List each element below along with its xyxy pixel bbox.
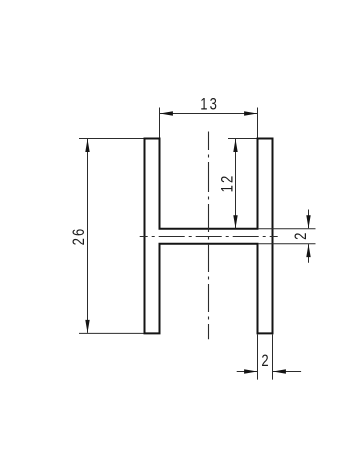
dimension 26 extension line top <box>79 138 144 140</box>
vertical centerline <box>208 132 210 340</box>
dimension 26 dimension line <box>87 139 89 333</box>
dimension 2 crossbar extension line bottom <box>258 243 316 245</box>
dimension 13 extension line left <box>159 108 161 138</box>
dimension 13 right arrowhead <box>244 111 257 115</box>
dimension 12 dimension line <box>235 139 237 228</box>
dimension 2 crossbar dimension line upper tail <box>308 210 310 229</box>
svg-text:12: 12 <box>219 174 237 193</box>
dimension 26 extension line bottom <box>79 332 144 334</box>
dimension 26 top arrowhead <box>85 139 89 152</box>
dimension 2 crossbar lower arrowhead <box>306 244 310 257</box>
dimension 2 flange left arrowhead <box>244 369 257 373</box>
dimension 2 crossbar extension line top <box>258 228 316 230</box>
H-profile outline <box>145 139 273 334</box>
dimension 12 top arrowhead <box>233 139 237 152</box>
dimension 12 bottom arrowhead <box>233 215 237 228</box>
dimension 2 flange extension line right <box>272 334 274 379</box>
dimension 26 value label <box>71 227 89 246</box>
dimension 2 flange value label <box>261 353 268 371</box>
dimension 2 flange dimension line right tail <box>273 371 301 373</box>
dimension 13 extension line right <box>257 108 259 138</box>
dimension 2 flange dimension line left tail <box>237 371 257 373</box>
dimension 12 extension line <box>228 138 257 140</box>
dimension 2 crossbar upper arrowhead <box>306 215 310 228</box>
dimension 2 crossbar value label <box>293 233 311 240</box>
dimension 13 left arrowhead <box>160 111 173 115</box>
dimension 2 flange right arrowhead <box>273 369 286 373</box>
svg-text:2: 2 <box>261 353 268 371</box>
dimension 13 value label <box>200 96 219 114</box>
svg-text:2: 2 <box>293 233 311 240</box>
dimension 26 bottom arrowhead <box>85 320 89 333</box>
svg-text:13: 13 <box>200 96 219 114</box>
horizontal centerline <box>140 236 278 238</box>
dimension 2 crossbar dimension line lower tail <box>308 244 310 263</box>
dimension 13 dimension line <box>160 113 257 115</box>
dimension 2 flange extension line left <box>257 334 259 379</box>
dimension 12 value label <box>219 174 237 193</box>
svg-text:26: 26 <box>71 227 89 246</box>
